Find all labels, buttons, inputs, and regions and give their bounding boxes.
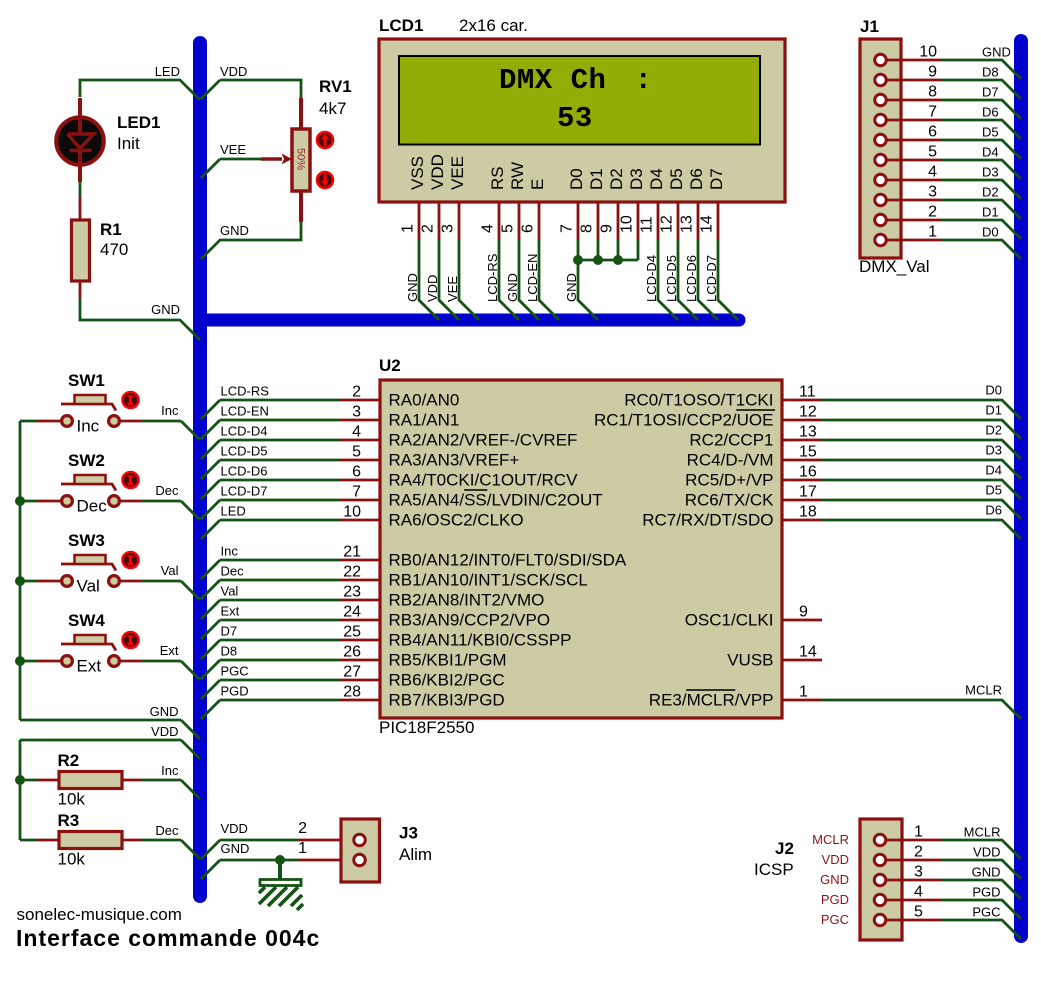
svg-text:DMX_Val: DMX_Val: [859, 257, 930, 276]
svg-text:R2: R2: [58, 751, 80, 770]
svg-text:D0: D0: [985, 383, 1002, 398]
svg-text:VEE: VEE: [220, 142, 246, 157]
svg-text:R1: R1: [100, 220, 122, 239]
svg-text:Ext: Ext: [77, 657, 102, 676]
svg-text:R3: R3: [58, 811, 80, 830]
svg-text:Val: Val: [221, 584, 239, 599]
svg-text:2: 2: [298, 820, 307, 837]
svg-text:10k: 10k: [58, 850, 86, 869]
svg-text:8: 8: [928, 84, 937, 101]
svg-text:3: 3: [352, 404, 361, 421]
svg-text:5: 5: [914, 904, 923, 921]
svg-text:D3: D3: [985, 443, 1002, 458]
svg-text:4: 4: [928, 164, 937, 181]
svg-text:RB6/KBI2/PGC: RB6/KBI2/PGC: [389, 671, 505, 690]
svg-text:9: 9: [599, 224, 616, 233]
svg-text:1: 1: [400, 224, 417, 233]
svg-text:D5: D5: [985, 483, 1002, 498]
svg-text:Dec: Dec: [155, 483, 179, 498]
svg-text:Inc: Inc: [161, 403, 179, 418]
svg-text:SW1: SW1: [68, 371, 105, 390]
svg-text:4: 4: [480, 224, 497, 233]
svg-text:Ext: Ext: [221, 604, 240, 619]
svg-text:4k7: 4k7: [319, 99, 346, 118]
svg-text:3: 3: [914, 864, 923, 881]
svg-text:D1: D1: [587, 168, 606, 190]
svg-text:VDD: VDD: [151, 724, 178, 739]
svg-text:D8: D8: [221, 644, 238, 659]
svg-text:27: 27: [343, 664, 361, 681]
svg-text:7: 7: [928, 104, 937, 121]
svg-text:PIC18F2550: PIC18F2550: [379, 718, 474, 737]
svg-text:Interface commande 004c: Interface commande 004c: [16, 925, 320, 951]
svg-text:RV1: RV1: [319, 77, 352, 96]
svg-text:VDD: VDD: [973, 845, 1000, 860]
svg-text:VDD: VDD: [220, 64, 247, 79]
svg-text:RA5/AN4/SS/LVDIN/C2OUT: RA5/AN4/SS/LVDIN/C2OUT: [389, 491, 603, 510]
svg-text:D3: D3: [982, 165, 999, 180]
svg-text:LCD1: LCD1: [379, 16, 423, 35]
svg-text:D0: D0: [982, 225, 999, 240]
svg-text:E: E: [528, 179, 547, 190]
svg-text:13: 13: [679, 215, 696, 233]
svg-text:GND: GND: [972, 865, 1001, 880]
svg-text:22: 22: [343, 564, 361, 581]
svg-text:11: 11: [799, 384, 816, 401]
svg-text:Dec: Dec: [77, 497, 108, 516]
svg-text:Val: Val: [161, 563, 179, 578]
svg-text:VDD: VDD: [221, 821, 248, 836]
svg-text:MCLR: MCLR: [964, 825, 1001, 840]
svg-text:VDD: VDD: [822, 852, 849, 867]
svg-text:Val: Val: [77, 577, 100, 596]
svg-text:D3: D3: [627, 168, 646, 190]
svg-text:GND: GND: [820, 872, 849, 887]
svg-text:VDD: VDD: [428, 154, 447, 190]
svg-text:GND: GND: [150, 704, 179, 719]
svg-text:12: 12: [799, 404, 817, 421]
svg-text:GND: GND: [221, 841, 250, 856]
svg-text:RE3/MCLR/VPP: RE3/MCLR/VPP: [649, 691, 774, 710]
svg-text:7: 7: [559, 224, 576, 233]
svg-text:sonelec-musique.com: sonelec-musique.com: [17, 905, 182, 924]
svg-text:4: 4: [914, 884, 923, 901]
svg-text:VUSB: VUSB: [727, 651, 773, 670]
svg-text:10k: 10k: [58, 790, 86, 809]
svg-text:1: 1: [914, 824, 923, 841]
svg-text:23: 23: [343, 584, 361, 601]
svg-text:RC6/TX/CK: RC6/TX/CK: [685, 491, 774, 510]
svg-text:10: 10: [343, 504, 361, 521]
svg-text:PGC: PGC: [221, 664, 249, 679]
svg-text:14: 14: [799, 644, 817, 661]
svg-text:D7: D7: [982, 85, 999, 100]
svg-text:6: 6: [352, 464, 361, 481]
svg-text:RS: RS: [488, 166, 507, 190]
svg-text:D2: D2: [982, 185, 999, 200]
svg-text:2: 2: [352, 384, 361, 401]
svg-text:50%: 50%: [295, 148, 307, 170]
svg-text:J2: J2: [775, 839, 794, 858]
svg-text:MCLR: MCLR: [965, 683, 1002, 698]
svg-text:D5: D5: [667, 168, 686, 190]
svg-text:6: 6: [928, 124, 937, 141]
svg-text:13: 13: [799, 424, 817, 441]
svg-text:PGD: PGD: [821, 892, 849, 907]
svg-text:26: 26: [343, 644, 361, 661]
svg-text:Ext: Ext: [160, 643, 179, 658]
svg-text:RC1/T1OSI/CCP2/UOE: RC1/T1OSI/CCP2/UOE: [594, 411, 774, 430]
svg-text:LCD-RS: LCD-RS: [221, 384, 270, 399]
svg-text:Alim: Alim: [399, 845, 432, 864]
svg-text:D8: D8: [982, 65, 999, 80]
svg-text:21: 21: [343, 544, 361, 561]
svg-text:RB2/AN8/INT2/VMO: RB2/AN8/INT2/VMO: [389, 591, 545, 610]
svg-text:OSC1/CLKI: OSC1/CLKI: [685, 611, 774, 630]
svg-text:2: 2: [420, 224, 437, 233]
svg-text:2x16 car.: 2x16 car.: [459, 16, 528, 35]
svg-text:24: 24: [343, 604, 361, 621]
svg-text:RA0/AN0: RA0/AN0: [389, 391, 460, 410]
svg-text:D2: D2: [985, 423, 1002, 438]
svg-text:VSS: VSS: [408, 156, 427, 190]
svg-text:5: 5: [500, 224, 517, 233]
svg-text:SW2: SW2: [68, 451, 105, 470]
svg-text:11: 11: [639, 216, 656, 233]
svg-text:RB5/KBI1/PGM: RB5/KBI1/PGM: [389, 651, 507, 670]
svg-text:18: 18: [799, 504, 817, 521]
svg-text:RC0/T1OSO/T1CKI: RC0/T1OSO/T1CKI: [624, 391, 773, 410]
svg-text:D4: D4: [982, 145, 999, 160]
svg-text:470: 470: [100, 240, 128, 259]
svg-text:14: 14: [699, 215, 716, 233]
svg-text:GND: GND: [220, 223, 249, 238]
svg-text:RA3/AN3/VREF+: RA3/AN3/VREF+: [389, 451, 520, 470]
svg-text::: :: [635, 64, 652, 97]
svg-text:LCD-D4: LCD-D4: [221, 424, 268, 439]
svg-text:LED: LED: [221, 504, 246, 519]
svg-text:12: 12: [659, 215, 676, 233]
svg-text:LCD-D5: LCD-D5: [221, 444, 268, 459]
svg-text:5: 5: [928, 144, 937, 161]
svg-text:2: 2: [928, 204, 937, 221]
svg-text:Inc: Inc: [221, 544, 239, 559]
svg-text:SW3: SW3: [68, 531, 105, 550]
svg-text:10: 10: [619, 215, 636, 233]
svg-text:1: 1: [298, 840, 307, 857]
svg-text:D0: D0: [567, 168, 586, 190]
svg-text:RW: RW: [508, 162, 527, 190]
svg-text:D7: D7: [221, 624, 238, 639]
svg-text:GND: GND: [151, 302, 180, 317]
svg-text:GND: GND: [982, 45, 1011, 60]
svg-text:3: 3: [928, 184, 937, 201]
svg-text:DMX Ch: DMX Ch: [499, 64, 606, 97]
svg-text:D1: D1: [982, 205, 999, 220]
svg-text:PGC: PGC: [821, 912, 849, 927]
svg-text:PGC: PGC: [972, 905, 1000, 920]
svg-text:D4: D4: [647, 168, 666, 190]
svg-text:U2: U2: [379, 356, 401, 375]
svg-text:2: 2: [914, 844, 923, 861]
svg-text:PGD: PGD: [972, 885, 1000, 900]
svg-text:Dec: Dec: [155, 823, 179, 838]
svg-text:RC2/CCP1: RC2/CCP1: [689, 431, 773, 450]
svg-text:MCLR: MCLR: [812, 832, 849, 847]
svg-text:1: 1: [928, 224, 937, 241]
svg-text:RC5/D+/VP: RC5/D+/VP: [685, 471, 773, 490]
svg-text:3: 3: [440, 224, 457, 233]
svg-text:17: 17: [799, 484, 817, 501]
svg-text:15: 15: [799, 444, 817, 461]
svg-text:J1: J1: [860, 17, 879, 36]
svg-text:ICSP: ICSP: [754, 860, 794, 879]
svg-text:D1: D1: [985, 403, 1002, 418]
svg-text:J3: J3: [399, 824, 418, 843]
svg-text:Inc: Inc: [77, 417, 100, 436]
svg-text:RB4/AN11/KBI0/CSSPP: RB4/AN11/KBI0/CSSPP: [389, 631, 572, 650]
svg-text:D6: D6: [982, 105, 999, 120]
svg-text:D7: D7: [707, 168, 726, 190]
svg-text:RB1/AN10/INT1/SCK/SCL: RB1/AN10/INT1/SCK/SCL: [389, 571, 588, 590]
svg-text:RA4/T0CKI/C1OUT/RCV: RA4/T0CKI/C1OUT/RCV: [389, 471, 579, 490]
svg-text:LCD-EN: LCD-EN: [221, 404, 269, 419]
svg-text:RB7/KBI3/PGD: RB7/KBI3/PGD: [389, 691, 505, 710]
svg-text:Inc: Inc: [161, 763, 179, 778]
svg-text:1: 1: [799, 684, 808, 701]
svg-text:RB3/AN9/CCP2/VPO: RB3/AN9/CCP2/VPO: [389, 611, 551, 630]
svg-text:7: 7: [352, 484, 361, 501]
svg-text:10: 10: [919, 44, 937, 61]
svg-text:9: 9: [928, 64, 937, 81]
svg-text:D4: D4: [985, 463, 1002, 478]
svg-text:6: 6: [520, 224, 537, 233]
svg-text:53: 53: [557, 102, 593, 135]
svg-text:RC7/RX/DT/SDO: RC7/RX/DT/SDO: [642, 511, 773, 530]
svg-text:9: 9: [799, 604, 808, 621]
svg-text:SW4: SW4: [68, 611, 105, 630]
svg-text:25: 25: [343, 624, 361, 641]
svg-text:8: 8: [579, 224, 596, 233]
svg-text:PGD: PGD: [221, 684, 249, 699]
svg-text:4: 4: [352, 424, 361, 441]
svg-text:RC4/D-/VM: RC4/D-/VM: [687, 451, 774, 470]
svg-text:16: 16: [799, 464, 817, 481]
svg-text:LED: LED: [155, 64, 180, 79]
svg-text:D2: D2: [607, 168, 626, 190]
svg-text:LCD-D7: LCD-D7: [221, 484, 268, 499]
svg-text:VEE: VEE: [448, 156, 467, 190]
svg-text:RA2/AN2/VREF-/CVREF: RA2/AN2/VREF-/CVREF: [389, 431, 578, 450]
svg-text:LCD-D6: LCD-D6: [221, 464, 268, 479]
svg-text:28: 28: [343, 684, 361, 701]
svg-text:D5: D5: [982, 125, 999, 140]
svg-text:RB0/AN12/INT0/FLT0/SDI/SDA: RB0/AN12/INT0/FLT0/SDI/SDA: [389, 551, 627, 570]
svg-text:Dec: Dec: [221, 564, 245, 579]
svg-text:D6: D6: [985, 503, 1002, 518]
svg-text:D6: D6: [687, 168, 706, 190]
svg-text:5: 5: [352, 444, 361, 461]
svg-text:Init: Init: [117, 134, 140, 153]
svg-text:RA1/AN1: RA1/AN1: [389, 411, 460, 430]
svg-text:RA6/OSC2/CLKO: RA6/OSC2/CLKO: [389, 511, 524, 530]
svg-text:LED1: LED1: [117, 113, 160, 132]
